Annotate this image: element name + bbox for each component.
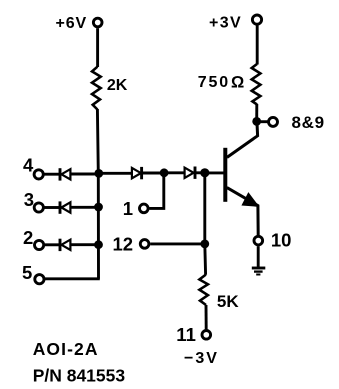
terminal pin 10 [254,236,263,245]
junction bus/pin4 row [94,169,103,178]
svg-text:2: 2 [23,227,33,248]
wire node B to Q1 base [205,171,224,174]
diode D5 [185,167,195,179]
junction node D (collector node) [252,117,261,126]
svg-text:+3V: +3V [209,15,242,32]
wire pin10 to ground [257,246,260,268]
svg-text:+6V: +6V [56,15,88,32]
wire +6V terminal to R1 [96,28,99,67]
transistor Q1 emitter wire [227,188,258,236]
resistor R3 5K [199,275,208,305]
wire bus to D4 (row4 continues right) [99,172,132,175]
terminal pin 4 [34,170,43,179]
resistor R1 2K [92,67,101,110]
ground [252,268,265,275]
junction node C [200,240,209,249]
wire pin5 to bus corner [45,277,100,280]
diode D1 [60,168,70,180]
terminal +3V [252,15,261,24]
transistor Q1 emitter arrow [243,194,257,206]
svg-text:10: 10 [271,230,292,251]
terminal pin 3 [34,203,43,212]
terminal pin 2 [35,240,44,249]
wire +3V terminal to R2 [256,25,259,64]
svg-text:5K: 5K [217,292,239,311]
transistor Q1 base bar [223,148,227,202]
svg-text:AOI-2A: AOI-2A [33,339,99,359]
diode D4 [132,167,142,179]
svg-text:Ω: Ω [231,74,244,92]
svg-text:750: 750 [198,74,230,91]
wire D5 to node B [195,171,205,174]
svg-text:12: 12 [113,233,134,254]
wire pin1 to node A [149,173,163,209]
junction node A (pin1 tap) [160,168,169,177]
wire node B to node C to R3 [203,173,207,275]
svg-text:4: 4 [23,155,34,176]
wire R2 to node D [255,104,258,121]
wire pin2 to D3 [45,243,59,246]
wire node D to terminal 8&9 [257,120,268,123]
svg-text:5: 5 [22,262,32,283]
terminal +6V [93,18,102,27]
wire AND bus (R1 bottom to pin5 row corner) [97,109,98,279]
svg-text:11: 11 [176,324,196,345]
terminal pin 11 [202,331,211,340]
terminal pin 12 [140,240,149,249]
junction bus/pin3 row [94,203,103,212]
junction bus/pin2 row [94,240,103,249]
svg-text:1: 1 [123,198,133,219]
terminal 8&9 [269,117,278,126]
svg-text:8&9: 8&9 [292,113,325,132]
wire R3 to pin11 [205,305,208,329]
wire pin4 to D1 [44,173,59,176]
wire node A to D5 [164,171,184,174]
junction node B (base node) [200,168,209,177]
terminal pin 5 [35,275,44,284]
wire pin12 to node C [150,242,205,245]
diode D2 [60,201,70,213]
svg-text:2K: 2K [107,77,128,94]
terminal pin 1 [140,204,149,213]
transistor Q1 collector wire [227,121,258,157]
resistor R2 750 ohm [252,64,261,105]
wire D3 to bus [70,243,98,246]
wire D1 to bus [70,173,98,176]
wire pin3 to D2 [44,206,59,209]
wire D2 to bus [70,206,98,209]
wire D4 to node A [142,172,164,175]
svg-text:3: 3 [24,189,34,210]
svg-text:P/N 841553: P/N 841553 [33,366,126,386]
svg-text:−3V: −3V [184,350,219,367]
diode D3 [60,239,70,251]
